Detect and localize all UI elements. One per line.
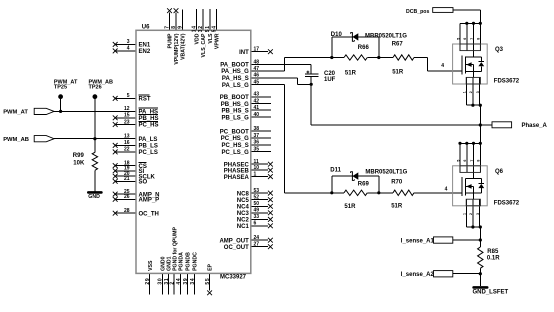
svg-text:R69: R69 (358, 181, 370, 187)
svg-text:R85: R85 (487, 249, 499, 255)
svg-text:GND_LSFET: GND_LSFET (473, 290, 509, 296)
svg-text:51R: 51R (391, 204, 403, 210)
svg-text:35: 35 (254, 147, 260, 153)
svg-text:7: 7 (470, 38, 474, 40)
svg-text:I_sense_A2: I_sense_A2 (401, 272, 435, 278)
svg-text:51: 51 (205, 25, 211, 32)
svg-text:TP25: TP25 (54, 84, 67, 90)
svg-text:R66: R66 (358, 45, 370, 51)
svg-text:Q3: Q3 (495, 47, 504, 53)
svg-text:8: 8 (477, 160, 481, 162)
svg-text:5: 5 (127, 93, 130, 99)
svg-text:PA_LS_G: PA_LS_G (222, 83, 249, 89)
svg-text:R99: R99 (73, 153, 85, 159)
svg-text:PHASEA: PHASEA (224, 175, 250, 181)
svg-text:10K: 10K (73, 160, 85, 166)
svg-text:6: 6 (463, 38, 467, 40)
svg-text:8: 8 (171, 25, 177, 28)
svg-text:PC_HS_G: PC_HS_G (221, 136, 249, 142)
svg-text:PC_LS_G: PC_LS_G (221, 150, 249, 156)
svg-text:10: 10 (254, 165, 260, 171)
svg-text:PC_HS_S: PC_HS_S (221, 143, 248, 149)
svg-text:53: 53 (254, 188, 260, 194)
svg-text:45: 45 (254, 79, 260, 85)
svg-text:26: 26 (124, 194, 130, 200)
svg-text:1: 1 (463, 91, 467, 93)
svg-text:4: 4 (441, 63, 444, 69)
svg-text:VBAT(42V): VBAT(42V) (181, 33, 187, 60)
svg-text:PA_HS: PA_HS (139, 110, 159, 116)
svg-text:6: 6 (463, 160, 467, 162)
svg-text:GND0: GND0 (160, 256, 166, 271)
svg-text:50: 50 (254, 201, 260, 207)
svg-text:PHASEB: PHASEB (224, 168, 250, 174)
svg-text:48: 48 (254, 59, 260, 65)
svg-text:7: 7 (165, 25, 171, 28)
svg-text:43: 43 (254, 92, 260, 98)
svg-text:39: 39 (183, 278, 189, 285)
svg-text:PGNDA: PGNDA (179, 252, 185, 271)
svg-text:AMP_OUT: AMP_OUT (219, 238, 249, 244)
svg-text:40: 40 (254, 112, 260, 118)
svg-text:I_sense_A1: I_sense_A1 (401, 238, 435, 244)
svg-text:16: 16 (124, 140, 130, 146)
svg-text:55: 55 (205, 278, 211, 285)
svg-text:INT: INT (239, 50, 249, 56)
svg-text:PWM_AB: PWM_AB (3, 137, 29, 143)
svg-text:FDS3672: FDS3672 (494, 79, 520, 85)
svg-text:41: 41 (254, 105, 260, 111)
svg-text:37: 37 (254, 133, 260, 139)
svg-text:DCB_pos: DCB_pos (406, 9, 429, 15)
svg-text:NC2: NC2 (237, 218, 250, 224)
svg-text:NC4: NC4 (237, 205, 250, 211)
svg-text:PWM_AT: PWM_AT (3, 110, 28, 116)
svg-text:23: 23 (124, 119, 130, 125)
svg-text:PB_HS_G: PB_HS_G (221, 102, 249, 108)
svg-text:51R: 51R (392, 70, 404, 76)
svg-text:PB_BOOT: PB_BOOT (220, 95, 249, 101)
svg-text:PA_LS: PA_LS (139, 137, 158, 143)
svg-text:3: 3 (476, 213, 480, 215)
svg-text:PB_LS: PB_LS (139, 144, 158, 150)
svg-text:VLS_CAP: VLS_CAP (201, 33, 207, 57)
svg-text:MC33927: MC33927 (220, 274, 247, 280)
svg-text:PC_BOOT: PC_BOOT (220, 129, 249, 135)
svg-text:27: 27 (254, 242, 260, 248)
svg-text:36: 36 (254, 140, 260, 146)
svg-text:1UF: 1UF (324, 77, 336, 83)
svg-text:PC_LS: PC_LS (139, 150, 158, 156)
svg-text:OC_TH: OC_TH (139, 211, 159, 217)
svg-text:R67: R67 (392, 41, 404, 47)
svg-text:15: 15 (124, 113, 130, 119)
svg-text:Q6: Q6 (495, 169, 504, 175)
svg-text:42: 42 (254, 99, 260, 105)
svg-text:MBR0520LT1G: MBR0520LT1G (365, 34, 407, 40)
svg-text:VSS: VSS (148, 260, 154, 271)
svg-text:2: 2 (170, 281, 176, 284)
svg-text:PB_LS_G: PB_LS_G (221, 115, 249, 121)
svg-text:PA_HS_G: PA_HS_G (221, 69, 249, 75)
svg-text:5: 5 (456, 160, 460, 162)
svg-text:46: 46 (254, 73, 260, 79)
svg-text:52: 52 (254, 195, 260, 201)
svg-text:AMP_P: AMP_P (139, 198, 160, 204)
svg-text:MBR0520LT1G: MBR0520LT1G (365, 169, 407, 175)
svg-text:13: 13 (124, 134, 130, 140)
svg-text:EN2: EN2 (139, 49, 151, 55)
svg-text:47: 47 (254, 66, 260, 72)
svg-text:22: 22 (124, 147, 130, 153)
svg-text:24: 24 (254, 235, 260, 241)
svg-text:9: 9 (178, 25, 184, 28)
svg-text:1: 1 (254, 171, 257, 177)
svg-text:30: 30 (158, 278, 164, 285)
svg-text:VDD: VDD (194, 33, 200, 44)
svg-text:44: 44 (176, 278, 182, 285)
svg-text:NC5: NC5 (237, 198, 250, 204)
svg-text:EP: EP (208, 263, 214, 270)
svg-text:32: 32 (198, 25, 204, 32)
svg-text:PUMP: PUMP (168, 33, 174, 49)
svg-text:EN1: EN1 (139, 43, 151, 49)
svg-text:U6: U6 (142, 25, 150, 31)
svg-text:OC_OUT: OC_OUT (224, 245, 249, 251)
svg-text:PGNDC: PGNDC (193, 252, 199, 271)
svg-text:VPUMP(12V): VPUMP(12V) (174, 33, 180, 64)
svg-text:NC8: NC8 (237, 191, 250, 197)
svg-text:PC_HS: PC_HS (139, 123, 159, 129)
svg-text:GND: GND (88, 194, 100, 200)
svg-text:33: 33 (254, 214, 260, 220)
svg-text:38: 38 (254, 126, 260, 132)
svg-text:SO: SO (139, 180, 148, 186)
svg-text:6: 6 (254, 221, 257, 227)
svg-text:D10: D10 (331, 32, 343, 38)
svg-text:PA_BOOT: PA_BOOT (220, 63, 249, 69)
svg-text:VPWR: VPWR (215, 33, 221, 49)
svg-text:VLS: VLS (208, 33, 214, 44)
svg-text:2: 2 (469, 91, 473, 93)
svg-text:PB_HS_S: PB_HS_S (221, 108, 248, 114)
svg-text:RST: RST (139, 97, 151, 103)
svg-text:54: 54 (212, 25, 218, 32)
svg-text:2: 2 (469, 213, 473, 215)
svg-text:49: 49 (254, 208, 260, 214)
svg-text:3: 3 (127, 39, 130, 45)
svg-text:12: 12 (124, 106, 130, 112)
svg-text:FDS3672: FDS3672 (494, 200, 520, 206)
svg-text:51R: 51R (345, 70, 357, 76)
svg-text:51R: 51R (344, 204, 356, 210)
svg-text:TP26: TP26 (89, 84, 102, 90)
svg-text:4: 4 (445, 186, 448, 192)
svg-text:1: 1 (463, 213, 467, 215)
svg-text:Phase_A: Phase_A (522, 123, 548, 129)
svg-text:34: 34 (190, 278, 196, 285)
svg-text:17: 17 (254, 47, 260, 53)
svg-text:4: 4 (127, 46, 130, 52)
svg-text:R70: R70 (391, 179, 403, 185)
svg-text:NC1: NC1 (237, 224, 250, 230)
svg-text:7: 7 (470, 160, 474, 162)
svg-text:21: 21 (124, 176, 130, 182)
svg-text:NC3: NC3 (237, 211, 250, 217)
svg-text:0.1R: 0.1R (487, 256, 500, 262)
svg-text:PGNDB: PGNDB (186, 252, 192, 271)
svg-text:PGND for QPUMP: PGND for QPUMP (172, 227, 178, 271)
svg-text:D11: D11 (330, 168, 341, 174)
svg-text:14: 14 (191, 25, 197, 32)
svg-text:29: 29 (145, 278, 151, 285)
svg-text:3: 3 (476, 91, 480, 93)
svg-text:5: 5 (456, 38, 460, 40)
svg-text:PA_HS_S: PA_HS_S (222, 76, 249, 82)
svg-text:PB_HS: PB_HS (139, 116, 159, 122)
svg-text:28: 28 (124, 208, 130, 214)
svg-text:8: 8 (477, 38, 481, 40)
